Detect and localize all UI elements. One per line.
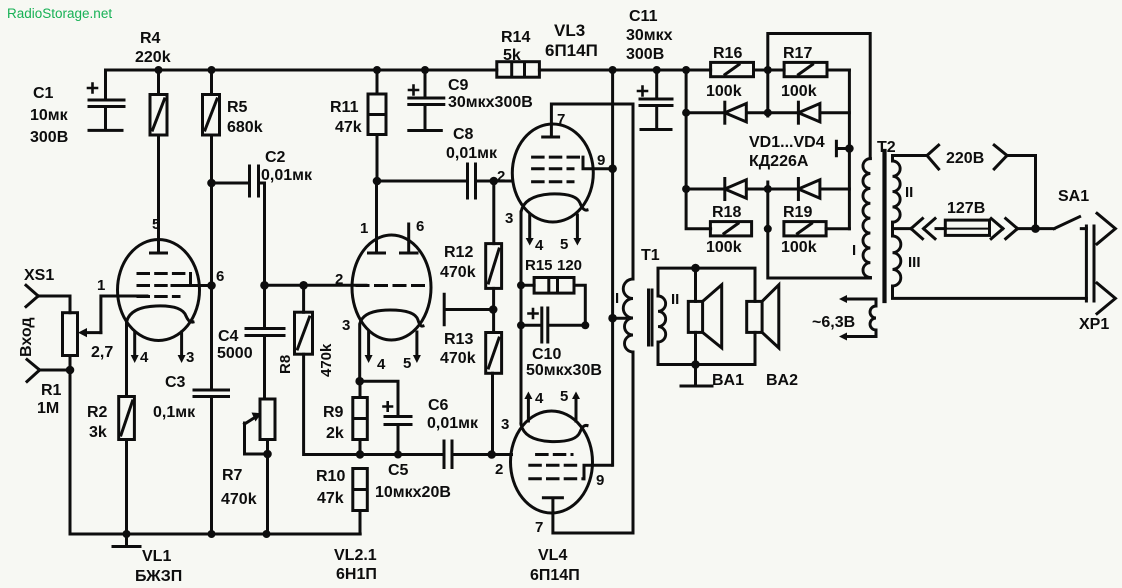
- node VL3 grid junction: [490, 177, 499, 186]
- connector tap 220V: [927, 145, 1036, 229]
- svg-text:I: I: [852, 242, 856, 259]
- svg-text:10мкх20В: 10мкх20В: [375, 484, 451, 501]
- resistor R13: [486, 310, 502, 455]
- node VL2 cathode junction: [355, 377, 364, 386]
- svg-text:1: 1: [360, 220, 368, 237]
- svg-text:6: 6: [216, 268, 224, 285]
- svg-text:6П14П: 6П14П: [530, 567, 580, 584]
- wire bridge left column: [686, 70, 711, 229]
- svg-text:470k: 470k: [440, 350, 476, 367]
- wire VL4 grid: [492, 453, 512, 456]
- svg-text:~6,3В: ~6,3В: [812, 314, 855, 331]
- wire VL2 anode to C8: [377, 180, 466, 183]
- svg-text:300В: 300В: [626, 46, 664, 63]
- resistor R18: [710, 222, 751, 236]
- speaker BA1: [688, 264, 721, 369]
- svg-text:R5: R5: [227, 99, 248, 116]
- node VL2 anode junction: [373, 177, 382, 186]
- tube VL2 anode pin1: [369, 181, 385, 253]
- resistor R14: [497, 62, 540, 77]
- tube VL4 heater pins 4,5: [524, 392, 580, 422]
- capacitor C10: [521, 308, 585, 342]
- svg-text:R11: R11: [330, 99, 359, 116]
- svg-text:5: 5: [560, 388, 568, 405]
- diode VD2: [798, 102, 820, 123]
- svg-text:XP1: XP1: [1079, 316, 1109, 333]
- svg-text:R19: R19: [783, 204, 812, 221]
- svg-text:100k: 100k: [706, 239, 742, 256]
- svg-text:R17: R17: [783, 45, 812, 62]
- transformer T2 winding III: [893, 229, 1087, 299]
- svg-text:R13: R13: [444, 331, 473, 348]
- svg-text:6: 6: [416, 218, 424, 235]
- svg-text:R10: R10: [316, 468, 345, 485]
- capacitor C4: [246, 285, 284, 399]
- svg-text:C5: C5: [388, 462, 409, 479]
- svg-text:C2: C2: [265, 149, 286, 166]
- tube VL2 cathode: [360, 310, 423, 381]
- resistor R17: [784, 62, 827, 76]
- wire diode row upper: [686, 111, 849, 114]
- svg-text:50мкх30В: 50мкх30В: [526, 362, 602, 379]
- wire bridge right column: [848, 70, 851, 229]
- diode VD4: [798, 179, 820, 200]
- resistor R16: [711, 62, 754, 76]
- wire common cathode line: [520, 212, 523, 424]
- svg-text:BA1: BA1: [712, 372, 744, 389]
- transformer T1 primary winding I: [608, 104, 633, 352]
- svg-text:VD1...VD4: VD1...VD4: [749, 134, 825, 151]
- wire diode row lower: [686, 188, 849, 191]
- transformer T2 heater winding ~6.3V: [839, 295, 876, 341]
- svg-text:220k: 220k: [135, 49, 171, 66]
- svg-text:VL3: VL3: [554, 21, 585, 40]
- svg-text:5: 5: [152, 216, 160, 233]
- tube VL4 cathode: [521, 424, 587, 442]
- tube VL4 envelope: [511, 411, 593, 513]
- svg-text:1: 1: [97, 277, 105, 294]
- svg-text:T1: T1: [641, 247, 660, 264]
- svg-text:5: 5: [560, 236, 568, 253]
- capacitor C6: [444, 441, 492, 468]
- diode VD1: [725, 102, 747, 123]
- svg-text:47k: 47k: [335, 119, 362, 136]
- tube VL1 heater pins 4,3: [131, 332, 186, 363]
- svg-text:R15: R15: [525, 257, 553, 274]
- wire B+ top rail: [106, 69, 850, 72]
- svg-text:T2: T2: [877, 139, 896, 156]
- svg-text:6П14П: 6П14П: [545, 41, 598, 60]
- svg-text:C11: C11: [629, 8, 658, 25]
- svg-text:VL4: VL4: [538, 547, 567, 564]
- svg-text:470k: 470k: [318, 343, 335, 377]
- svg-text:XS1: XS1: [24, 267, 54, 284]
- svg-text:3: 3: [342, 317, 350, 334]
- ground symbol at BA1: [681, 365, 712, 387]
- svg-text:C10: C10: [532, 346, 561, 363]
- wire bridge middle column: [768, 70, 871, 278]
- resistor R15: [521, 278, 585, 326]
- resistor R11: [368, 70, 386, 181]
- ground symbol at R2: [113, 534, 140, 547]
- resistor R5: [203, 70, 220, 389]
- wire ground bus: [70, 533, 360, 536]
- svg-text:C4: C4: [218, 328, 239, 345]
- capacitor C3: [194, 390, 229, 534]
- resistor R10: [353, 469, 368, 535]
- fuse FU1: [936, 220, 990, 235]
- svg-text:R8: R8: [277, 355, 294, 374]
- wire screen-grid B+ line: [611, 70, 614, 465]
- tube VL1 envelope: [118, 240, 200, 341]
- svg-text:10мк: 10мк: [30, 107, 69, 124]
- tube VL2 envelope: [352, 235, 431, 340]
- svg-text:2k: 2k: [326, 425, 344, 442]
- connector XS1: [26, 285, 70, 534]
- svg-text:R16: R16: [713, 45, 742, 62]
- svg-text:C1: C1: [33, 85, 54, 102]
- resistor R19: [784, 222, 850, 236]
- node VL1 pin6 junction: [207, 281, 216, 290]
- svg-text:R4: R4: [140, 30, 161, 47]
- capacitor C9: [409, 70, 444, 131]
- tube VL3 anode pin7: [543, 104, 633, 137]
- tube VL2 grid: [357, 284, 428, 287]
- svg-text:2: 2: [497, 168, 505, 185]
- resistor R8: [295, 285, 361, 454]
- capacitor C11: [638, 70, 672, 130]
- svg-text:4: 4: [535, 237, 544, 254]
- svg-text:3: 3: [501, 416, 509, 433]
- svg-text:RadioStorage.net: RadioStorage.net: [7, 6, 112, 21]
- svg-text:4: 4: [140, 349, 149, 366]
- svg-text:680k: 680k: [227, 119, 263, 136]
- svg-text:120: 120: [557, 257, 582, 274]
- capacitor C7 stub: [444, 294, 493, 325]
- svg-text:4: 4: [535, 390, 544, 407]
- tube VL3 envelope: [512, 124, 593, 222]
- svg-text:127В: 127В: [947, 200, 985, 217]
- svg-text:7: 7: [535, 519, 543, 536]
- speaker BA2: [747, 285, 779, 348]
- resistor R9: [353, 381, 368, 454]
- tube VL3 cathode: [521, 194, 587, 285]
- svg-text:2,7: 2,7: [91, 344, 113, 361]
- tube VL2 anode pin6 stub: [401, 224, 418, 253]
- transformer T2 core: [882, 151, 886, 301]
- connector tap 127V right half: [991, 219, 1035, 239]
- svg-text:II: II: [671, 291, 679, 308]
- svg-text:100k: 100k: [781, 83, 817, 100]
- svg-text:3: 3: [505, 210, 513, 227]
- svg-text:II: II: [905, 184, 913, 201]
- svg-text:R9: R9: [323, 404, 344, 421]
- capacitor C5: [360, 381, 411, 454]
- variable resistor R7: [245, 399, 276, 534]
- resistor R4: [150, 70, 167, 253]
- svg-text:470k: 470k: [221, 491, 257, 508]
- tube VL4 grids: [530, 455, 612, 479]
- connector tap 127V: [893, 219, 936, 239]
- capacitor C8: [468, 164, 512, 198]
- svg-text:100k: 100k: [706, 83, 742, 100]
- label mark near VD4: [836, 141, 849, 156]
- tube VL1 cathode: [127, 306, 194, 397]
- svg-text:5: 5: [403, 355, 411, 372]
- wire bridge frame top: [768, 34, 870, 159]
- transformer T1 secondary winding II: [658, 268, 755, 364]
- svg-text:300В: 300В: [30, 129, 68, 146]
- svg-text:9: 9: [597, 152, 605, 169]
- svg-text:2: 2: [495, 461, 503, 478]
- svg-text:R14: R14: [501, 29, 530, 46]
- svg-text:30мкх: 30мкх: [626, 27, 673, 44]
- svg-text:30мкх300В: 30мкх300В: [448, 94, 533, 111]
- svg-text:5000: 5000: [217, 345, 253, 362]
- svg-text:БЖЗП: БЖЗП: [135, 568, 182, 585]
- svg-text:C3: C3: [165, 374, 186, 391]
- svg-text:2: 2: [335, 271, 343, 288]
- plug XP1: [1086, 213, 1115, 313]
- tube VL3 grids: [533, 157, 613, 182]
- tube VL4 anode pin7: [543, 352, 633, 533]
- svg-text:47k: 47k: [317, 490, 344, 507]
- svg-text:3: 3: [186, 349, 194, 366]
- svg-text:C8: C8: [453, 126, 474, 143]
- tube VL1 grids: [138, 274, 212, 297]
- transformer T2 winding I: [863, 159, 870, 278]
- potentiometer R1: [63, 296, 148, 374]
- diode VD3: [725, 179, 747, 200]
- svg-text:0,01мк: 0,01мк: [446, 145, 498, 162]
- node SA1 junction: [1031, 224, 1040, 233]
- node R12 R13 junction: [489, 305, 498, 314]
- svg-text:5k: 5k: [503, 47, 521, 64]
- svg-text:C6: C6: [428, 397, 449, 414]
- svg-text:VL2.1: VL2.1: [334, 547, 377, 564]
- svg-text:7: 7: [557, 111, 565, 128]
- node VL3 screen junction: [608, 164, 617, 173]
- svg-text:КД226А: КД226А: [749, 153, 809, 170]
- wire VL2 grid: [265, 284, 367, 287]
- svg-text:R2: R2: [87, 404, 108, 421]
- svg-text:BA2: BA2: [766, 372, 798, 389]
- svg-text:470k: 470k: [440, 264, 476, 281]
- resistor R12: [486, 181, 502, 310]
- svg-text:C9: C9: [448, 77, 469, 94]
- svg-text:6Н1П: 6Н1П: [336, 566, 377, 583]
- svg-text:Вход: Вход: [18, 317, 35, 357]
- switch SA1: [1036, 217, 1087, 229]
- resistor R2: [119, 397, 135, 535]
- capacitor C1: [88, 70, 124, 130]
- svg-text:VL1: VL1: [142, 548, 171, 565]
- svg-text:R12: R12: [444, 244, 473, 261]
- transformer T2 winding II: [893, 156, 928, 229]
- transformer T1 core: [649, 290, 653, 345]
- wire cathode network to C6: [360, 453, 443, 456]
- svg-text:R18: R18: [712, 204, 741, 221]
- svg-text:4: 4: [377, 356, 386, 373]
- node rail junction dots: [155, 66, 772, 74]
- svg-text:100k: 100k: [781, 239, 817, 256]
- svg-text:220В: 220В: [946, 150, 984, 167]
- svg-text:III: III: [908, 254, 921, 271]
- svg-text:3k: 3k: [89, 424, 107, 441]
- capacitor C2: [212, 166, 265, 285]
- node VL4 grid junction: [487, 450, 496, 459]
- svg-text:1M: 1M: [37, 400, 59, 417]
- svg-text:I: I: [615, 290, 619, 307]
- tube VL3 heater pins 4,5: [526, 215, 582, 246]
- svg-text:R7: R7: [222, 467, 243, 484]
- svg-text:R1: R1: [41, 382, 62, 399]
- svg-text:SA1: SA1: [1058, 188, 1089, 205]
- svg-text:0,01мк: 0,01мк: [427, 415, 479, 432]
- svg-text:0,01мк: 0,01мк: [261, 167, 313, 184]
- svg-text:9: 9: [596, 472, 604, 489]
- svg-text:0,1мк: 0,1мк: [153, 404, 196, 421]
- tube VL2 heater pins 4,5: [365, 332, 421, 363]
- node VL2 grid junctions: [260, 281, 269, 290]
